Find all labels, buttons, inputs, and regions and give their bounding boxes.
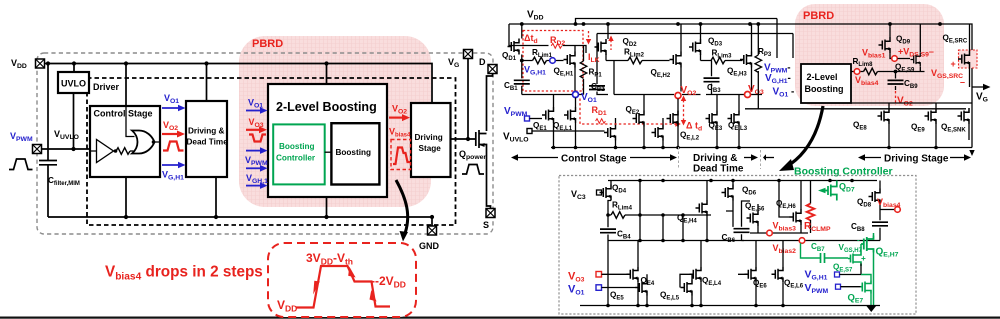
svg-text:Driving &: Driving & xyxy=(693,153,737,164)
mid mesh wires left xyxy=(640,181,663,241)
svg-text:Boosting: Boosting xyxy=(336,148,371,157)
or-gate inside control stage xyxy=(132,131,155,154)
transistor QESNK xyxy=(958,108,970,124)
svg-text:Control Stage: Control Stage xyxy=(94,109,153,119)
svg-text:+: + xyxy=(951,59,956,69)
svg-text:Control Stage: Control Stage xyxy=(561,154,627,165)
node Vbias3 xyxy=(750,232,808,234)
transistor QEH3 xyxy=(740,52,752,68)
Boosting box xyxy=(331,123,379,184)
routing wire VGH1 top xyxy=(576,19,778,59)
transistor QE1 xyxy=(542,107,554,123)
transistor QESRC in red box xyxy=(959,50,978,68)
terminal VDD xyxy=(36,59,45,68)
svg-text:-: - xyxy=(857,236,860,245)
svg-text:Boosting: Boosting xyxy=(805,84,844,94)
wire VPWM to control stage xyxy=(42,148,91,150)
transistor row2 left xyxy=(604,125,616,141)
VGH,1 blue arrow xyxy=(246,167,261,169)
transistor QD1 xyxy=(508,39,520,55)
bottom rail right schematic xyxy=(551,147,972,149)
wire UVLO output xyxy=(73,93,75,149)
svg-text:Driving Stage: Driving Stage xyxy=(884,154,949,165)
red dashed waveform box xyxy=(268,243,416,317)
terminal VG xyxy=(464,50,473,59)
svg-text:D: D xyxy=(479,57,486,67)
transistor QE2 xyxy=(633,111,645,127)
buffer triangle inside control stage xyxy=(97,140,114,163)
ground symbol xyxy=(866,306,877,313)
transistor QEH2 xyxy=(670,52,682,68)
Control Stage box xyxy=(90,106,160,177)
top rail xyxy=(608,180,877,182)
VPWM blue arrow xyxy=(246,150,261,152)
node line stage1 + resistor RLim1 xyxy=(522,60,564,62)
node VGH1 (blue circle) xyxy=(550,58,556,64)
wire VG to gate xyxy=(451,59,477,140)
capacitor CB2 xyxy=(597,61,608,95)
wire UVLO stub xyxy=(73,64,75,73)
stage3: transistor QD3 xyxy=(689,39,701,55)
capacitor CB4 xyxy=(600,229,616,233)
transistor QEH1 xyxy=(564,52,576,68)
transistor QE7 green xyxy=(861,281,872,294)
bottom rail of sub-circuit xyxy=(580,305,880,307)
output RLim8 line xyxy=(851,71,925,73)
VUVLO input xyxy=(527,129,532,134)
curved arrow from 2-level box to bottom sub-circuit xyxy=(786,106,823,167)
stage2: transistor QD2 xyxy=(595,39,607,55)
svg-text:Dead Time: Dead Time xyxy=(187,138,229,147)
transistor QE9 xyxy=(925,108,937,124)
Qpower gate waveform xyxy=(462,165,484,175)
VPWM input waveform xyxy=(9,159,33,170)
horizontal row y=240.5 xyxy=(608,240,744,242)
transistor QD9 xyxy=(879,37,891,53)
transistor Qpower xyxy=(476,130,487,152)
pink PBRD highlight region right xyxy=(795,4,944,106)
transistor QD7 green xyxy=(818,188,826,194)
driver boundary (black dashed) xyxy=(87,78,456,225)
gate row wire for output stage xyxy=(745,108,966,110)
bottom border bar xyxy=(0,317,1000,319)
transistors QE3 QEL3 xyxy=(706,111,718,127)
svg-text:2-Level: 2-Level xyxy=(807,72,838,82)
stage1: gate line xyxy=(509,24,586,53)
terminal S xyxy=(486,209,495,218)
svg-text:Driving &: Driving & xyxy=(188,127,224,136)
svg-text:PBRD: PBRD xyxy=(803,10,834,22)
dotted boundary box xyxy=(559,176,916,315)
terminal VPWM xyxy=(33,145,42,154)
svg-text:Stage: Stage xyxy=(419,144,442,153)
resistor inside control stage xyxy=(116,148,130,155)
node Vbias2 row xyxy=(742,240,881,242)
red dotted dtd arrow near VO2 xyxy=(683,100,685,121)
VO1 node line xyxy=(522,94,584,96)
UVLO box xyxy=(58,72,89,93)
svg-text:–: – xyxy=(960,77,965,87)
capacitor CB8 xyxy=(872,222,888,226)
node VO2 line xyxy=(614,94,701,96)
red dotted box dtd RD2 xyxy=(523,31,583,92)
capacitor CB3 xyxy=(711,61,713,95)
resistor RCLMP red vertical xyxy=(807,204,815,221)
svg-text:S: S xyxy=(483,220,489,230)
resistor RP1 xyxy=(583,46,585,95)
transistor QD6 xyxy=(722,185,734,201)
ground rail xyxy=(48,217,432,227)
transistor QD8 xyxy=(869,189,881,205)
capacitor CB1 xyxy=(521,61,523,95)
wire VDD rail xyxy=(40,64,432,104)
transistor QES9 xyxy=(910,53,920,67)
svg-text:Controller: Controller xyxy=(276,154,316,163)
section label Control Stage xyxy=(517,157,558,159)
VO2 red dotted below CB9 xyxy=(895,91,897,105)
svg-text:Dead Time: Dead Time xyxy=(693,164,744,175)
svg-text:2-Level Boosting: 2-Level Boosting xyxy=(276,100,377,114)
transistor QES7 green xyxy=(848,251,861,266)
node line stage2 + RLim2 xyxy=(606,60,670,62)
svg-text:Driver: Driver xyxy=(93,82,120,92)
VG output arrow xyxy=(972,86,984,88)
capacitor CB7 green xyxy=(821,253,825,263)
terminal D + drain wire xyxy=(488,65,497,74)
curved arrow to waveform box xyxy=(396,180,408,236)
VPWM input xyxy=(525,116,530,121)
svg-text:UVLO: UVLO xyxy=(61,79,86,89)
resistor RP3 xyxy=(757,24,759,109)
wire driving-deadtime stub xyxy=(206,64,208,102)
junction dots VDD rail xyxy=(520,22,942,26)
node Vbias4 out xyxy=(895,207,901,213)
Driving & Dead Time box xyxy=(186,101,227,177)
pink PBRD highlight region left xyxy=(239,36,431,207)
2-Level Boosting box xyxy=(268,84,387,197)
transistor QEL1 xyxy=(564,107,576,123)
wire C_filter branch xyxy=(47,64,49,218)
red dotted RD1 discharge path xyxy=(580,99,676,125)
svg-text:Boosting: Boosting xyxy=(279,142,314,151)
capacitor CB6 xyxy=(734,229,750,233)
transistor QD4 xyxy=(600,185,612,201)
transistors QE4 QEL4 xyxy=(627,266,639,282)
transistor QES6 xyxy=(747,210,759,226)
section label Driving Stage xyxy=(864,157,881,159)
transistor QEH7 green xyxy=(861,236,874,253)
node line stage3 + RLim3 xyxy=(701,60,743,62)
QEL2 column xyxy=(677,99,679,148)
red dotted arrow down xyxy=(588,31,590,40)
Driving Stage box xyxy=(411,103,451,177)
wire source to S xyxy=(487,152,491,209)
junction dots on VDD rail xyxy=(46,61,329,65)
svg-text:GND: GND xyxy=(419,241,440,251)
capacitor C_filter,MIM xyxy=(39,161,57,165)
svg-text:PBRD: PBRD xyxy=(252,38,283,50)
connector wire between controller and boosting xyxy=(325,151,332,153)
outer chip boundary (gray dashed) xyxy=(37,53,493,234)
node VO3 line xyxy=(706,94,762,96)
transistors QE5 QEL5 xyxy=(636,280,648,296)
transistor QEH4 xyxy=(696,200,708,216)
Boosting Controller green box xyxy=(273,124,325,184)
VDD rail right xyxy=(509,24,972,148)
routing wires to 2-level box xyxy=(597,34,793,61)
2-Level Boosting box (right) xyxy=(801,64,851,103)
VGH1 blue arrow xyxy=(162,164,179,166)
transistor QE8 xyxy=(878,108,890,124)
terminal GND xyxy=(428,226,437,235)
capacitor CB9 xyxy=(895,72,897,91)
2-step waveform xyxy=(296,266,390,308)
wire 2-level stub xyxy=(326,64,328,85)
section label Driving & Dead Time xyxy=(744,157,752,159)
transistors QE6 QEL6 xyxy=(745,266,757,282)
wires from boxes to ground rail xyxy=(126,177,327,217)
svg-text:Driving: Driving xyxy=(415,133,443,142)
resistor RD2 (red) xyxy=(551,43,562,48)
transistor QEH6 xyxy=(790,209,802,225)
wire control stage stub xyxy=(125,64,127,107)
